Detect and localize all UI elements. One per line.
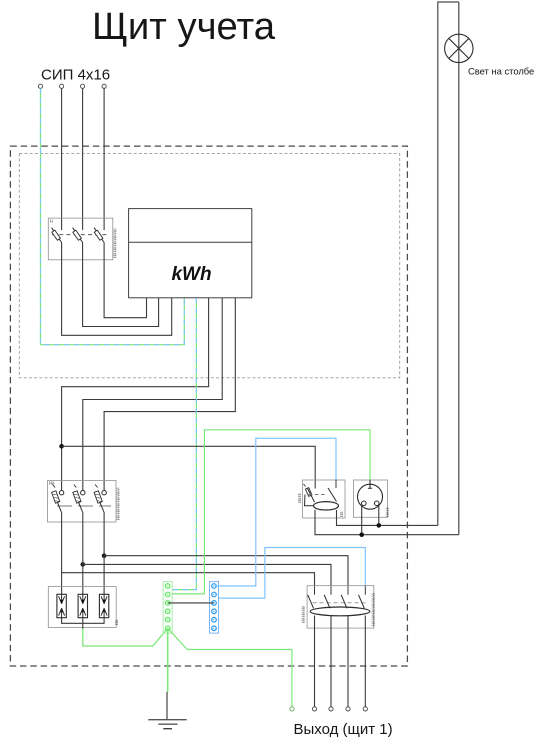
- QS1 pole 3 output wire: [104, 243, 146, 318]
- socket earth contact: [369, 480, 371, 488]
- wire N to switch box (blue): [214, 438, 336, 586]
- wire socket pin N down: [378, 505, 380, 526]
- QS2 label (tiny): [49, 482, 54, 484]
- FV1 arrester element 1 (spark gap): [57, 594, 66, 617]
- light switch SA1 box: [303, 480, 346, 518]
- pole left line: [438, 2, 459, 525]
- input terminal X1 (СИП): [38, 84, 42, 88]
- svg-text:kWh: kWh: [171, 264, 211, 285]
- wire N to RCD pole 4 (blue): [219, 548, 366, 599]
- wire meter out L3: meter to distribution: [104, 298, 235, 491]
- QF1 pole 4 blade: [364, 586, 366, 595]
- QF1 pole 3 blade: [347, 586, 349, 595]
- SA1 switch blade: [328, 488, 337, 502]
- output terminal 1 (PE): [290, 707, 294, 711]
- svg-text:Выход (щит 1): Выход (щит 1): [294, 721, 393, 738]
- wire switch SA1 out (left pole of lamp circuit) to pole right line: [315, 510, 459, 535]
- svg-text:Свет на столбе: Свет на столбе: [468, 65, 534, 76]
- wire PE-N bridge: [168, 602, 214, 604]
- QS1 pole 2 (fuse-switch blade): [73, 228, 83, 243]
- SA1 link dashed: [309, 494, 328, 496]
- QS2 pole 2: fuse + contact: [73, 485, 85, 523]
- wire PE strip to earth (green): [167, 628, 169, 691]
- enclosure outer dash-dot box: [10, 146, 407, 666]
- wire socket pin L down: [361, 505, 363, 535]
- svg-text:Щит учета: Щит учета: [92, 5, 276, 48]
- SA1 left lead bracket: [305, 495, 314, 506]
- wire meter out L2: meter to distribution: [83, 298, 222, 491]
- wire phase L2 input: [82, 88, 84, 230]
- SA1 labels (tiny): [298, 494, 300, 503]
- socket circle: [358, 484, 383, 509]
- FV1 arrester element 3 (spark gap): [99, 594, 108, 617]
- wire phase L3 input: [103, 88, 105, 230]
- QS1 pole 2 output wire: [83, 243, 159, 327]
- wire QF1 output 2: [330, 616, 332, 707]
- socket pin L: [362, 501, 367, 506]
- socket label (tiny): [386, 508, 388, 517]
- socket XS1 box: [354, 480, 388, 517]
- QF1 link dashed: [313, 602, 369, 604]
- pole right line / wire to lamp: [458, 2, 460, 535]
- wire L3 to RCD pole 3: [104, 556, 348, 587]
- wire L2 to RCD pole 2: [83, 564, 331, 586]
- wire meter out L1: meter to distribution: [62, 298, 209, 491]
- SA1 indicator ellipse: [314, 502, 339, 510]
- earth lead: [166, 692, 168, 720]
- FV1 common bus: [62, 618, 105, 624]
- wire PE to output terminal 1 (green): [168, 628, 292, 707]
- wire QF1 output 1: [314, 616, 316, 707]
- wire QS2 outputs down to surge arrester FV1: [61, 522, 63, 594]
- disconnect switch QS1 box: [48, 218, 113, 260]
- QS2 pole 1: fuse + contact: [52, 485, 64, 523]
- wire PEN from meter terminal 5 down to PE terminal strip (green/blue dashed): [172, 298, 196, 590]
- lamp EL1 (light on pole): [445, 34, 473, 62]
- wire phase L1 input: [61, 88, 63, 230]
- energy meter PI1 box: [129, 209, 252, 298]
- wire QF1 output 3: [347, 616, 349, 707]
- QS1 label (tiny): [50, 220, 53, 222]
- SA1 input wire (from N) inside box: [335, 480, 337, 488]
- QS1 pole 1 output wire: [62, 243, 172, 336]
- wire phase tap to switch SA1: [62, 446, 316, 488]
- QF1 pole 2 blade: [330, 586, 332, 595]
- wire PEN input (green/blue dashed): terminal X1 to meter terminal 4: [41, 88, 185, 344]
- QF1 toroid ellipse: [310, 607, 370, 616]
- enclosure inner dashed box (meter section): [19, 154, 399, 378]
- junction: socket L on lamp return: [359, 532, 364, 537]
- junction node: L2 to RCD: [81, 562, 86, 567]
- input terminal X3 (СИП): [81, 84, 85, 88]
- QF1 pole 1 blade: [314, 586, 316, 595]
- ground symbol: [148, 720, 186, 729]
- meter terminal cover divider: [129, 241, 252, 243]
- output terminal 3: [329, 707, 333, 711]
- QS2 mechanical link (dashed): [57, 505, 111, 507]
- packet switch QS2 box: [48, 481, 117, 523]
- wire switch SA1 out2 to pole left line: [337, 510, 438, 525]
- output terminal 5: [363, 707, 367, 711]
- socket pin N: [374, 501, 379, 506]
- QS1 pole 3 (fuse-switch blade): [94, 228, 104, 243]
- PE terminal strip XT1: [163, 582, 172, 634]
- SA1 fuse element: [305, 488, 312, 497]
- FV1 label (tiny): [115, 620, 117, 625]
- junction node: phase L1 tap for light circuit: [59, 444, 64, 449]
- wire FV1 earth lead (green) to PE strip: [83, 628, 168, 646]
- wire PE to socket XS1 (green): [172, 430, 370, 594]
- surge arrester FV1 box: [48, 587, 116, 628]
- output terminal 2: [312, 707, 316, 711]
- QS2 pole 3: fuse + contact: [94, 485, 106, 523]
- input terminal X4 (СИП): [102, 84, 106, 88]
- RCD QF1 box: [307, 586, 374, 628]
- wire QF1 output 4: [364, 616, 366, 707]
- FV1 arrester element 2 (spark gap): [78, 594, 87, 617]
- junction node: L3 to RCD: [102, 553, 107, 558]
- QS1 mechanical link (dashed): [52, 234, 109, 236]
- wire L1 to RCD pole 1: [62, 573, 315, 587]
- output terminal 4: [346, 707, 350, 711]
- QF1 labels (tiny): [302, 606, 304, 623]
- svg-text:СИП 4x16: СИП 4x16: [41, 67, 110, 84]
- junction: socket N on lamp feed: [377, 523, 382, 528]
- N terminal strip XT2: [210, 582, 219, 634]
- input terminal X2 (СИП): [60, 84, 64, 88]
- QS1 pole 1 (fuse-switch blade): [52, 228, 62, 243]
